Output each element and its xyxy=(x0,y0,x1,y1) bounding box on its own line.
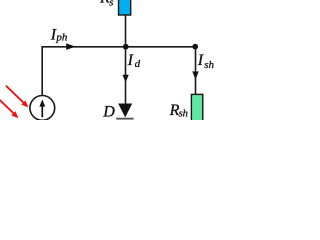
resistor R_sh (green, cropped bottom) xyxy=(191,94,202,126)
arrow I_d on wire xyxy=(122,75,128,82)
svg-text:ph: ph xyxy=(55,32,68,44)
wire middle vertical xyxy=(125,16,127,104)
resistor R_s (cyan, cropped top) xyxy=(119,0,131,15)
svg-text:s: s xyxy=(109,0,113,9)
node junction dot middle xyxy=(123,44,129,50)
arrow I_sh on wire xyxy=(192,71,198,79)
arrow I_ph on wire xyxy=(66,43,76,50)
wire top horizontal xyxy=(41,46,195,48)
current source arrow xyxy=(39,99,45,117)
current source I_ph circle xyxy=(30,96,55,121)
diode D cathode bar xyxy=(116,118,133,120)
svg-text:sh: sh xyxy=(204,59,214,71)
light arrow red 2 xyxy=(0,98,18,118)
svg-text:I: I xyxy=(197,52,204,69)
svg-text:I: I xyxy=(127,52,134,69)
diode D triangle xyxy=(118,104,132,118)
light arrow red 1 xyxy=(6,86,29,108)
wire right vertical xyxy=(195,47,197,94)
svg-text:sh: sh xyxy=(179,108,188,119)
node junction dot right xyxy=(192,44,198,50)
svg-text:D: D xyxy=(102,103,115,120)
svg-text:d: d xyxy=(135,58,141,70)
wire left vertical xyxy=(41,46,43,96)
